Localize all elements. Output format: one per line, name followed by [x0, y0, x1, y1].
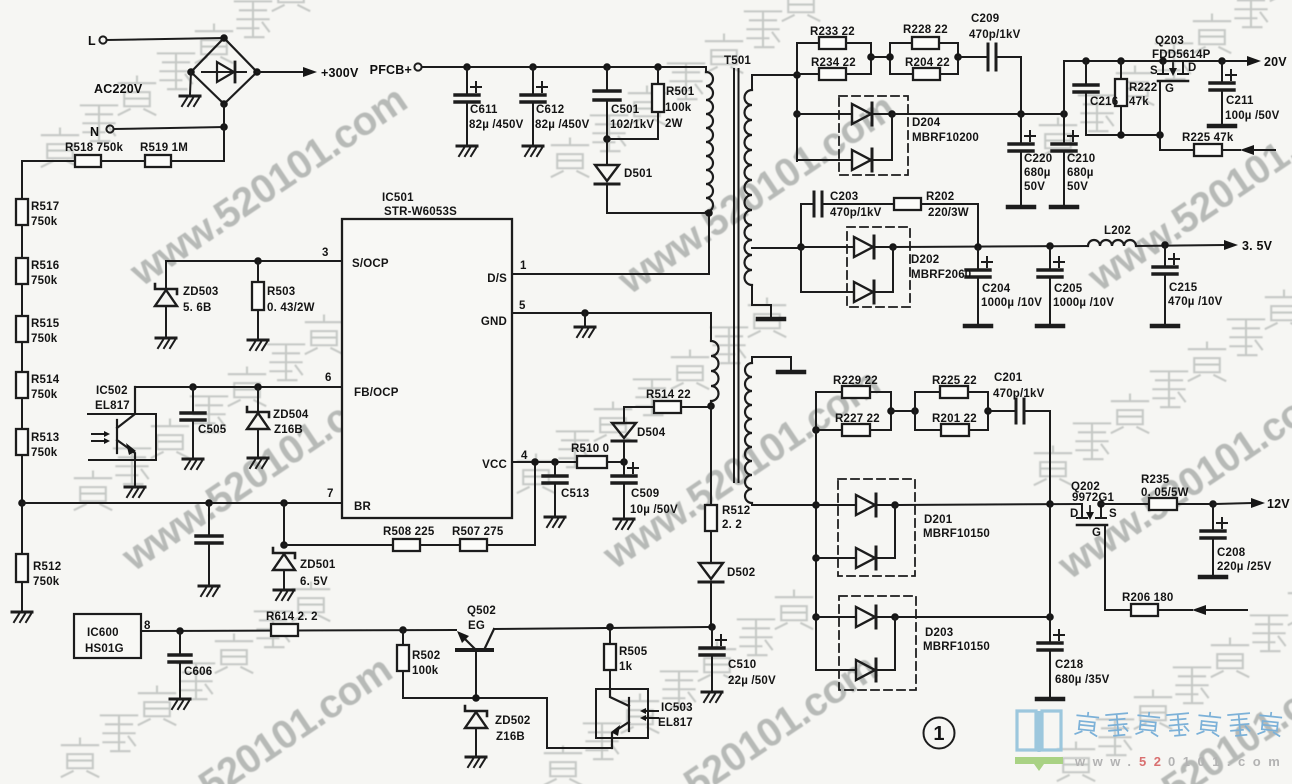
node R505 tap — [606, 623, 614, 631]
node C205 tap — [1046, 242, 1054, 250]
capacitor C501 102/1kV — [606, 67, 608, 89]
svg-text:R514: R514 — [31, 374, 60, 386]
ground (ZD504) — [248, 458, 268, 468]
wire R229 left junction — [815, 392, 817, 430]
transformer T501 secondary winding 2 — [752, 357, 791, 369]
svg-text:10µ /50V: 10µ /50V — [630, 504, 678, 516]
svg-text:470µ /10V: 470µ /10V — [1168, 296, 1223, 308]
svg-text:IC503: IC503 — [661, 702, 693, 714]
svg-text:Z16B: Z16B — [274, 424, 303, 436]
resistor R508 225 — [393, 539, 420, 551]
diode D504 — [623, 441, 625, 462]
wire ZD504 to ground — [257, 429, 259, 456]
wire D501 to primary bottom — [607, 184, 709, 213]
wire rail to R512 — [21, 503, 23, 554]
wire R501 to snubber node — [607, 112, 658, 139]
svg-text:8: 8 — [144, 620, 151, 632]
svg-text:R502: R502 — [412, 650, 440, 662]
dual diode D202 MBRF2060 dashed box — [847, 227, 910, 307]
svg-text:5: 5 — [519, 300, 526, 312]
svg-text:C509: C509 — [631, 488, 659, 500]
svg-text:680µ /35V: 680µ /35V — [1055, 674, 1110, 686]
zener ZD504 Z16B — [247, 407, 269, 429]
svg-text:D501: D501 — [624, 168, 653, 180]
ground (pin5) — [575, 327, 595, 337]
wire pin1 D/S to primary — [512, 214, 709, 274]
svg-text:2. 2: 2. 2 — [722, 519, 742, 531]
svg-text:3: 3 — [322, 247, 329, 259]
dual diode D203 MBRF10150 dashed box — [839, 596, 916, 690]
svg-text:R512: R512 — [33, 561, 61, 573]
wire 20V feed line — [1064, 61, 1222, 114]
svg-text:470p/1kV: 470p/1kV — [993, 388, 1045, 400]
node R233 group out — [867, 53, 875, 61]
capacitor C209 470p/1kV — [988, 44, 996, 70]
svg-text:4: 4 — [521, 450, 528, 462]
ground (C208) — [1200, 576, 1226, 578]
wire R507 to VCC — [487, 462, 535, 545]
svg-text:12V: 12V — [1267, 497, 1290, 511]
diode D201 upper — [816, 504, 856, 506]
svg-text:D: D — [1188, 62, 1197, 74]
svg-text:470p/1kV: 470p/1kV — [969, 29, 1021, 41]
resistor R519 1M — [145, 155, 171, 167]
ground (C509) — [614, 519, 634, 529]
wire R235 to 12V out — [1177, 503, 1213, 505]
MOSFET Q203 FDD5614P — [1158, 61, 1168, 74]
node D201 lower anode — [812, 554, 820, 562]
wire 12V column — [1049, 504, 1051, 617]
wire pin5 GND — [512, 312, 711, 314]
svg-text:D203: D203 — [925, 627, 953, 639]
ground (C505) — [183, 459, 203, 469]
capacitor C203 470p/1kV — [801, 203, 814, 205]
svg-text:R510 0: R510 0 — [571, 443, 609, 455]
wire R508 to R507 — [420, 544, 460, 546]
wire R206 stub — [1206, 609, 1247, 611]
resistor R513 750k — [16, 429, 28, 455]
ground (C215) — [1152, 325, 1178, 327]
capacitor C612 82u/450V — [532, 67, 534, 93]
svg-text:D202: D202 — [911, 254, 939, 266]
svg-text:R228 22: R228 22 — [903, 24, 948, 36]
resistor R206 180 gate feedback — [1105, 525, 1131, 610]
svg-text:6. 5V: 6. 5V — [300, 576, 328, 588]
node 3.5V tap — [797, 243, 805, 251]
svg-text:R202: R202 — [926, 191, 954, 203]
wire ZD503 to ground — [165, 306, 167, 336]
node C220 tap — [1017, 110, 1025, 118]
resistor R227 22 — [842, 424, 870, 436]
wire R228/R204 right junction — [957, 43, 959, 74]
wire R225 stub — [1254, 149, 1275, 151]
svg-text:S/OCP: S/OCP — [352, 258, 389, 270]
node C216 tap — [1082, 57, 1090, 65]
wire to R508 — [284, 544, 393, 546]
resistor R510 0 — [577, 456, 607, 468]
svg-text:R516: R516 — [31, 260, 59, 272]
node primary bottom — [705, 209, 713, 217]
svg-text:680µ: 680µ — [1067, 167, 1094, 179]
resistor R503 0.43/2W — [252, 282, 264, 310]
svg-text:ZD502: ZD502 — [495, 715, 531, 727]
wire R225/R201 right junction — [987, 392, 989, 430]
svg-text:G: G — [1092, 527, 1101, 539]
svg-text:750k: 750k — [33, 576, 60, 588]
svg-text:R515: R515 — [31, 318, 60, 330]
resistor R505 1k — [609, 627, 611, 644]
wire L202 to 3.5V out — [1136, 245, 1224, 246]
resistor R201 22 — [941, 424, 969, 436]
svg-text:C220: C220 — [1024, 153, 1052, 165]
IC U IC501 STR-W6053S box — [342, 219, 512, 518]
wire R512 to ground — [21, 582, 23, 610]
wire to ZD503 — [165, 261, 167, 287]
wire ZD501 to ground — [283, 570, 285, 588]
svg-text:R204 22: R204 22 — [905, 57, 950, 69]
wire C216/R222 bottom — [1086, 134, 1160, 136]
svg-text:5. 6B: 5. 6B — [183, 302, 212, 314]
wire bridge to +300V — [257, 71, 303, 73]
wire IC600 pin8 line — [141, 630, 456, 631]
node BR cap tap — [205, 499, 213, 507]
+300V arrow — [303, 67, 317, 77]
ground (C611) — [457, 146, 477, 156]
node R225b group in — [911, 407, 919, 415]
svg-text:82µ /450V: 82µ /450V — [469, 119, 524, 131]
node R503 tap — [254, 257, 262, 265]
node C501 tap — [603, 63, 611, 71]
resistor R228 22 — [912, 37, 939, 49]
resistor R233 22 — [819, 37, 846, 49]
wire R233/R234 right junction — [870, 43, 872, 74]
resistor R501 100k 2W — [657, 67, 659, 84]
node Q203 gate — [1156, 131, 1164, 139]
node D204 cathodes — [888, 110, 896, 118]
svg-text:S: S — [1150, 65, 1158, 77]
node D202 cathodes — [889, 243, 897, 251]
svg-text:R233 22: R233 22 — [810, 26, 855, 38]
AC live terminal L — [99, 36, 106, 43]
wire C203 left to tap — [800, 204, 802, 247]
svg-text:R508 225: R508 225 — [383, 526, 435, 538]
wire R225/R201 left junction — [914, 392, 916, 430]
inductor L202 — [1088, 240, 1136, 246]
resistor R222 47k — [1120, 61, 1122, 79]
bridge rectifier — [191, 38, 257, 104]
svg-text:7: 7 — [327, 488, 334, 500]
capacitor C201 470p/1kV — [1016, 399, 1024, 423]
svg-text:102/1kV: 102/1kV — [610, 119, 654, 131]
ground (R512) — [12, 612, 32, 622]
transformer T501 secondary winding 1 — [752, 74, 797, 76]
svg-text:750k: 750k — [31, 389, 58, 401]
capacitor C216 — [1085, 61, 1087, 83]
wire pin6 FB/OCP — [135, 386, 342, 388]
resistor R516 750k — [16, 258, 28, 284]
svg-text:R225 47k: R225 47k — [1182, 132, 1234, 144]
wire 3.5V line — [893, 246, 1088, 247]
svg-text:ZD503: ZD503 — [183, 286, 219, 298]
capacitor C215 470u/10V — [1164, 245, 1166, 265]
svg-text:EG: EG — [468, 620, 485, 632]
diode D502 — [710, 531, 712, 563]
wire C201 to 12V line — [1025, 411, 1050, 504]
svg-text:C510: C510 — [728, 659, 756, 671]
terminal PFCB+ — [414, 63, 421, 70]
resistor R225 22 — [940, 386, 968, 398]
svg-text:MBRF2060: MBRF2060 — [911, 269, 971, 281]
svg-text:ZD501: ZD501 — [300, 559, 336, 571]
wire Q502 to C510 node — [494, 627, 712, 629]
svg-text:750k: 750k — [31, 275, 58, 287]
node C201 bottom — [1046, 500, 1054, 508]
wire R202 to 3.5V line — [921, 204, 978, 247]
wire to ZD501 — [283, 503, 285, 545]
node R227 left — [812, 426, 820, 434]
svg-text:2W: 2W — [665, 118, 683, 130]
wire bridge bottom to R519 — [171, 104, 224, 161]
wire C209 to D204 out — [997, 57, 1021, 114]
wire rail — [21, 455, 23, 503]
svg-text:R229 22: R229 22 — [833, 375, 878, 387]
MOSFET Q202 9972G1 — [1077, 504, 1087, 518]
capacitor C509 10u/50V — [623, 462, 625, 474]
svg-text:6: 6 — [325, 372, 332, 384]
svg-text:EL817: EL817 — [95, 400, 130, 412]
node C510-D502 — [708, 623, 716, 631]
wire Q502 base down — [475, 650, 477, 698]
wire R229/R227 right junction — [890, 392, 892, 430]
svg-text:C611: C611 — [470, 104, 498, 116]
wire bridge to ground — [190, 72, 191, 94]
node GND tap — [581, 309, 589, 317]
node C204 tap — [974, 243, 982, 251]
circled sheet number 1 — [924, 718, 955, 749]
resistor R518 750k — [75, 155, 101, 167]
capacitor C204 1000u/10V — [977, 247, 979, 268]
wire R514 to aux node — [681, 406, 711, 408]
wire to ZD504 — [257, 387, 259, 410]
node N junction — [220, 123, 228, 131]
node C201 in — [984, 407, 992, 415]
svg-text:0. 43/2W: 0. 43/2W — [267, 302, 315, 314]
svg-text:82µ /450V: 82µ /450V — [535, 119, 590, 131]
zener ZD501 6.5V — [273, 548, 295, 570]
wire D502 to C510 node — [710, 582, 712, 627]
svg-text:52: 52 — [1139, 754, 1168, 769]
svg-text:C505: C505 — [198, 424, 227, 436]
svg-text:C216: C216 — [1090, 96, 1118, 108]
svg-text:D/S: D/S — [487, 273, 507, 285]
svg-text:C201: C201 — [994, 372, 1023, 384]
wire 3.5V tap — [752, 247, 801, 249]
svg-text:750k: 750k — [31, 216, 58, 228]
resistor R234 22 — [819, 68, 846, 80]
capacitor (BR filter) — [208, 503, 210, 534]
svg-text:IC600: IC600 — [87, 627, 119, 639]
wire pin7 BR — [22, 502, 342, 504]
svg-text:1000µ /10V: 1000µ /10V — [981, 297, 1042, 309]
diode D203 upper — [816, 616, 856, 618]
resistor R225 47k feedback — [1160, 135, 1194, 150]
svg-text:20V: 20V — [1264, 55, 1287, 69]
transformer T501 primary winding — [705, 67, 707, 72]
svg-text:100k: 100k — [665, 102, 692, 114]
diode D202 upper — [801, 246, 854, 248]
ground (C612) — [523, 146, 543, 156]
node winding1 top — [793, 71, 801, 79]
transformer core — [734, 69, 739, 482]
svg-text:R234 22: R234 22 — [811, 57, 856, 69]
wire to R503 — [257, 261, 259, 282]
diode D201 lower — [816, 557, 856, 559]
node ZD501-R508 junction — [280, 541, 288, 549]
svg-text:N: N — [90, 125, 99, 139]
wire rail — [21, 225, 23, 258]
svg-text:1k: 1k — [619, 661, 633, 673]
node 12V out — [1209, 500, 1217, 508]
ground (C606) — [170, 699, 190, 709]
diode D204 upper — [797, 113, 852, 115]
svg-text:HS01G: HS01G — [85, 643, 124, 655]
node C505 tap — [189, 383, 197, 391]
ground (ZD501) — [274, 590, 294, 600]
svg-text:100µ /50V: 100µ /50V — [1225, 110, 1280, 122]
diode D501 — [606, 139, 608, 165]
svg-text:D504: D504 — [637, 427, 666, 439]
logo green swoosh — [1015, 757, 1063, 771]
svg-text:C612: C612 — [536, 104, 564, 116]
svg-text:R513: R513 — [31, 432, 59, 444]
wire Q202 S to R235 — [1101, 503, 1149, 505]
svg-text:Q203: Q203 — [1155, 35, 1184, 47]
dual diode D204 MBRF10200 dashed box — [839, 96, 908, 175]
svg-text:R514 22: R514 22 — [646, 389, 691, 401]
node C611 tap — [463, 63, 471, 71]
svg-text:D201: D201 — [924, 514, 953, 526]
diode D202 lower — [801, 247, 854, 292]
svg-text:47k: 47k — [1129, 96, 1149, 108]
resistor R514 750k — [16, 372, 28, 398]
logo book icon — [1017, 711, 1061, 752]
ground (C218) — [1037, 698, 1063, 700]
svg-text:220µ /25V: 220µ /25V — [1217, 561, 1272, 573]
node C513 tap — [551, 458, 559, 466]
svg-text:VCC: VCC — [482, 459, 507, 471]
svg-text:1: 1 — [520, 260, 527, 272]
svg-text:C205: C205 — [1054, 283, 1083, 295]
zener ZD503 5.6B — [155, 284, 177, 306]
svg-text:IC501: IC501 — [382, 192, 414, 204]
node R229 group out — [887, 407, 895, 415]
resistor R515 750k — [16, 316, 28, 342]
wire secondary2 to D201 — [752, 503, 816, 505]
capacitor C606 — [179, 631, 181, 653]
svg-text:S: S — [1109, 508, 1117, 520]
wire rail — [21, 284, 23, 316]
svg-text:T501: T501 — [724, 55, 751, 67]
wire N to node — [114, 127, 224, 129]
node D203 cathodes — [891, 613, 899, 621]
node R228 group in — [886, 53, 894, 61]
svg-text:C218: C218 — [1055, 659, 1084, 671]
svg-text:22µ /50V: 22µ /50V — [728, 675, 776, 687]
svg-text:C208: C208 — [1217, 547, 1246, 559]
svg-text:BR: BR — [354, 501, 372, 513]
wire D504 to R514 — [624, 407, 654, 423]
svg-text:100k: 100k — [412, 665, 439, 677]
logo site name hanzi — [1074, 711, 1282, 737]
svg-text:MBRF10150: MBRF10150 — [923, 641, 990, 653]
svg-text:R507 275: R507 275 — [452, 526, 504, 538]
svg-text:C215: C215 — [1169, 282, 1198, 294]
svg-text:G: G — [1165, 83, 1174, 95]
svg-text:R503: R503 — [267, 286, 295, 298]
wire R503 to ground — [257, 310, 259, 338]
svg-text:MBRF10200: MBRF10200 — [912, 132, 979, 144]
wire L to bridge — [107, 38, 222, 40]
wire R510 to node — [607, 461, 624, 463]
svg-text:R517: R517 — [31, 201, 59, 213]
wire IC502 emitter to ground — [134, 460, 136, 485]
ground (ZD503) — [156, 338, 176, 348]
svg-text:C210: C210 — [1067, 153, 1095, 165]
svg-text:FDD5614P: FDD5614P — [1152, 49, 1211, 61]
wire R233 left junction — [796, 43, 798, 161]
node winding2 out — [812, 501, 820, 509]
transistor Q502 EG — [457, 648, 492, 652]
svg-text:D204: D204 — [912, 117, 941, 129]
svg-text:FB/OCP: FB/OCP — [354, 387, 399, 399]
capacitor C210 680u/50V — [1063, 114, 1065, 142]
svg-text:C501: C501 — [611, 104, 640, 116]
svg-text:R501: R501 — [666, 86, 695, 98]
node Q203 S — [1159, 57, 1167, 65]
ground (ZD502) — [466, 757, 486, 767]
svg-text:C513: C513 — [561, 488, 589, 500]
wire 12V rect line — [895, 504, 1082, 505]
ground (C205) — [1037, 325, 1063, 327]
svg-text:C203: C203 — [830, 191, 858, 203]
wire pin4 VCC — [512, 461, 577, 463]
ground (R503) — [248, 340, 268, 350]
node D201 cathodes — [891, 501, 899, 509]
wire rail — [21, 398, 23, 429]
node ZD501 tap — [280, 499, 288, 507]
ground (IC502) — [125, 487, 145, 497]
node C612 tap — [529, 63, 537, 71]
node ZD502 tap — [472, 694, 480, 702]
resistor R235 0.05/5W — [1149, 498, 1177, 510]
wire rail — [21, 342, 23, 372]
node R502 tap — [399, 626, 407, 634]
watermark tile layer — [122, 77, 415, 295]
svg-text:750k: 750k — [31, 447, 58, 459]
ground (BR cap) — [199, 586, 219, 596]
svg-text:470p/1kV: 470p/1kV — [830, 207, 882, 219]
svg-text:L: L — [88, 34, 96, 48]
svg-text:R235: R235 — [1141, 474, 1170, 486]
wire +300V bus — [422, 66, 706, 68]
12V output arrow — [1213, 503, 1251, 504]
svg-text:R222: R222 — [1129, 82, 1157, 94]
resistor R202 220/3W — [894, 198, 921, 210]
svg-text:1000µ /10V: 1000µ /10V — [1053, 297, 1114, 309]
svg-text:680µ: 680µ — [1024, 167, 1051, 179]
node C210 tap — [1060, 110, 1068, 118]
wire to IC503 emitter — [547, 698, 612, 748]
